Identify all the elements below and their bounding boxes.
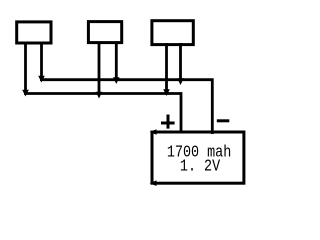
svg-text:1. 2V: 1. 2V <box>180 156 221 176</box>
